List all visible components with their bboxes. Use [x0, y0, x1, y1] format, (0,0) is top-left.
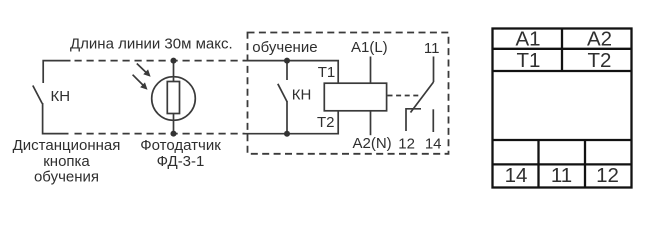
light arrow 2 head: [141, 83, 147, 89]
table hline 4: [493, 163, 632, 165]
wire cable bottom dashed: [75, 133, 245, 135]
svg-text:обучения: обучения: [34, 168, 99, 185]
table hline 3: [493, 139, 632, 141]
pushbutton KH2 bottom lead: [286, 101, 288, 134]
svg-text:A2: A2: [587, 27, 612, 50]
svg-text:T2: T2: [317, 114, 335, 131]
photosensor BL1 bottom lead: [173, 114, 175, 134]
svg-text:A1(L): A1(L): [351, 39, 388, 56]
svg-text:обучение: обучение: [252, 39, 317, 56]
table outer border: [493, 29, 632, 188]
wire T1 top horizontal into coil: [244, 61, 339, 83]
light arrow 2: [133, 75, 145, 87]
light arrow 1: [137, 64, 148, 75]
pushbutton KH1 bottom lead: [43, 103, 69, 134]
svg-text:T2: T2: [588, 49, 612, 72]
contact 14 lead: [432, 109, 434, 132]
svg-text:14: 14: [505, 164, 528, 187]
wire A1 lead: [370, 57, 372, 84]
svg-text:КН: КН: [292, 87, 312, 104]
svg-text:11: 11: [551, 164, 572, 187]
svg-text:Фотодатчик: Фотодатчик: [140, 137, 221, 154]
photosensor BL1 circle: [152, 77, 196, 121]
junction T1 KH2: [284, 58, 290, 64]
svg-text:A1: A1: [515, 27, 540, 50]
svg-text:A2(N): A2(N): [353, 135, 392, 152]
photosensor BL1 top lead: [173, 61, 175, 82]
table vline bottom left: [537, 140, 539, 188]
svg-text:кнопка: кнопка: [43, 153, 90, 170]
contact 12 fixed bar and lead: [406, 109, 421, 131]
wire cable top dashed: [75, 60, 245, 62]
contact 11 lead: [433, 57, 435, 83]
svg-text:T1: T1: [318, 64, 336, 81]
wire A2 lead: [370, 111, 372, 135]
relay coil K1 body: [324, 83, 386, 111]
pushbutton KH1 remote top lead: [43, 61, 70, 83]
light arrow 1 head: [144, 70, 150, 76]
table vline top divider: [561, 29, 563, 72]
relay unit dashed enclosure: [248, 33, 449, 154]
svg-text:ФД-3-1: ФД-3-1: [157, 153, 205, 170]
svg-text:12: 12: [398, 135, 415, 152]
table vline bottom right: [584, 140, 586, 188]
junction sensor bottom: [171, 131, 177, 137]
svg-text:11: 11: [424, 40, 440, 57]
junction T2 KH2: [284, 131, 290, 137]
table hline 1: [493, 48, 632, 50]
pushbutton KH1 blade: [33, 86, 42, 104]
junction sensor top: [171, 58, 177, 64]
pushbutton KH2 blade: [278, 84, 287, 102]
pushbutton KH2 internal top stub: [286, 61, 288, 80]
svg-text:14: 14: [425, 135, 442, 152]
svg-text:Длина линии 30м макс.: Длина линии 30м макс.: [70, 36, 233, 53]
svg-text:12: 12: [596, 164, 619, 187]
svg-text:КН: КН: [51, 88, 71, 105]
svg-text:T1: T1: [517, 49, 541, 72]
table hline 2: [493, 70, 632, 72]
photosensor BL1 element: [167, 82, 179, 114]
terminal table: [493, 29, 632, 188]
wire T2 bottom horizontal into coil: [244, 111, 339, 134]
contact blade 11: [411, 82, 434, 113]
actuator link dashed: [388, 95, 420, 97]
svg-text:Дистанционная: Дистанционная: [13, 137, 121, 154]
